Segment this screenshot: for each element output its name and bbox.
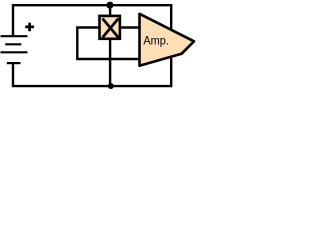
mixer U1 box: [100, 16, 120, 39]
battery B1: [1, 36, 28, 63]
mixer U1 X diagonals: [103, 19, 119, 38]
wire main loop (top rail from battery + to right side, right vertical, bottom rail back to battery -): [13, 5, 171, 86]
wire top node to mixer top: [109, 5, 111, 16]
junction dot bottom node: [108, 83, 114, 89]
wire mixer output to amplifier input: [121, 26, 140, 28]
battery plus terminal label: [25, 23, 34, 32]
wire mixer bottom to bottom rail: [109, 39, 111, 86]
svg-text:Amp.: Amp.: [143, 34, 169, 48]
wire mixer left input U-path (left of mixer, down, right to amplifier lower input): [77, 28, 139, 60]
amplifier U2 triangle: [140, 14, 195, 66]
junction dot top node: [106, 2, 113, 9]
